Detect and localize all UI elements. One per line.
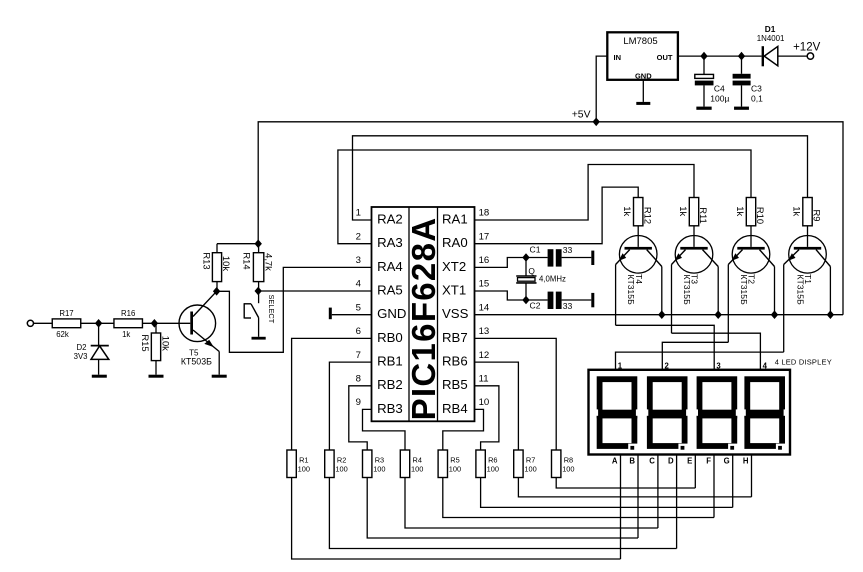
wire R16 to T5 base xyxy=(143,322,191,324)
ground C2 stub xyxy=(591,293,594,307)
svg-text:6: 6 xyxy=(356,326,361,337)
node D2 junction xyxy=(95,319,102,328)
terminal input xyxy=(27,320,33,326)
svg-text:R10: R10 xyxy=(755,207,766,224)
svg-text:RB5: RB5 xyxy=(442,377,468,392)
zener diode D2 3V3 xyxy=(74,323,109,374)
ground T5 xyxy=(212,375,227,378)
crystal Q 4,0MHz xyxy=(516,258,566,301)
svg-text:R16: R16 xyxy=(121,309,135,318)
svg-text:33: 33 xyxy=(563,245,573,255)
capacitor C2 33 xyxy=(526,292,591,311)
svg-text:LM7805: LM7805 xyxy=(623,36,657,47)
wire R7 to display segment H xyxy=(518,478,751,497)
svg-text:R8: R8 xyxy=(564,456,573,465)
transistor T3 KT315B xyxy=(672,226,719,333)
transistor T4 KT315B xyxy=(616,226,662,325)
ground C3 xyxy=(734,107,749,110)
svg-text:R14: R14 xyxy=(242,252,253,269)
wire R8 to display segment E xyxy=(556,478,695,489)
node C4 junction xyxy=(700,52,707,61)
wire R17 to R16 xyxy=(81,322,114,324)
svg-text:1k: 1k xyxy=(791,206,802,216)
resistor R10 1k xyxy=(735,198,766,226)
wire T2 emitter to display pin2 xyxy=(662,342,728,370)
svg-text:10k: 10k xyxy=(221,256,232,271)
svg-text:9: 9 xyxy=(356,397,361,408)
svg-text:10k: 10k xyxy=(160,336,171,351)
svg-text:RB2: RB2 xyxy=(377,377,403,392)
svg-text:4: 4 xyxy=(763,361,768,370)
svg-text:RA2: RA2 xyxy=(377,211,403,226)
svg-text:16: 16 xyxy=(479,255,490,266)
wire RA1 pin18 to R11 xyxy=(475,165,695,221)
svg-text:R9: R9 xyxy=(812,210,823,222)
wire IN to +5V rail xyxy=(596,56,607,122)
wire T1 emitter to display pin1 xyxy=(616,352,784,370)
svg-text:G: G xyxy=(724,457,730,466)
svg-text:100: 100 xyxy=(335,465,347,474)
node R14 bottom junction xyxy=(255,287,262,296)
svg-text:5: 5 xyxy=(356,302,361,313)
svg-text:33: 33 xyxy=(563,301,573,311)
voltage regulator U2 LM7805 xyxy=(607,32,678,80)
node T3 collector junction xyxy=(715,310,722,319)
svg-text:100: 100 xyxy=(487,465,499,474)
wire RB6 pin12 to R7 xyxy=(475,362,519,450)
svg-text:RA3: RA3 xyxy=(377,235,403,250)
svg-text:1k: 1k xyxy=(678,206,689,216)
node R13 R14 +5V junction xyxy=(255,239,262,248)
ground R15 xyxy=(149,375,164,378)
svg-text:RB0: RB0 xyxy=(377,330,403,345)
svg-text:КТ503Б: КТ503Б xyxy=(181,357,212,367)
svg-text:F: F xyxy=(706,457,711,466)
capacitor C1 33 xyxy=(526,244,591,266)
svg-text:B: B xyxy=(629,457,635,466)
svg-text:13: 13 xyxy=(479,326,490,337)
wire R2 to display segment D xyxy=(329,478,676,549)
node T1 collector junction xyxy=(827,310,834,319)
wire RA2 pin1 to R9 xyxy=(353,136,808,220)
svg-text:8: 8 xyxy=(356,374,361,385)
resistor R17 62k xyxy=(52,309,81,339)
svg-text:100: 100 xyxy=(562,465,574,474)
svg-text:3: 3 xyxy=(356,255,361,266)
svg-text:RA0: RA0 xyxy=(442,235,468,250)
svg-text:R7: R7 xyxy=(526,456,535,465)
capacitor C4 100u xyxy=(695,56,730,107)
svg-text:10: 10 xyxy=(479,397,490,408)
svg-text:3: 3 xyxy=(716,361,721,370)
diode D1 1N4001 xyxy=(757,24,807,66)
wire RA5 pin4 xyxy=(258,290,371,292)
svg-text:18: 18 xyxy=(479,208,490,219)
resistor R13 10k xyxy=(201,244,232,292)
svg-text:17: 17 xyxy=(479,231,490,242)
wire XT1 pin15 xyxy=(475,291,527,300)
wire R3 to display segment B xyxy=(367,478,638,539)
svg-text:11: 11 xyxy=(479,374,489,385)
resistor R11 1k xyxy=(678,198,709,226)
capacitor C3 0,1 xyxy=(733,56,763,107)
wire T5 collector to RA4 xyxy=(217,267,372,352)
svg-text:4,7k: 4,7k xyxy=(264,253,275,271)
svg-text:E: E xyxy=(687,457,692,466)
wire XT2 pin16 xyxy=(475,258,527,268)
svg-text:4 LED DISPLEY: 4 LED DISPLEY xyxy=(775,357,832,366)
LED display 4 digit xyxy=(589,357,832,559)
svg-text:RB1: RB1 xyxy=(377,354,403,369)
svg-text:62k: 62k xyxy=(56,330,69,339)
svg-text:1: 1 xyxy=(618,361,623,370)
wire RB0 pin6 to R1 xyxy=(292,338,372,450)
svg-text:OUT: OUT xyxy=(657,53,673,62)
svg-text:RB4: RB4 xyxy=(442,401,468,416)
transistor T1 KT315B xyxy=(784,226,831,352)
wire RB3 pin9 to R4 xyxy=(363,409,406,450)
resistor R8 100 xyxy=(552,450,575,478)
svg-text:1k: 1k xyxy=(122,330,130,339)
terminal +12V xyxy=(793,41,821,59)
svg-text:H: H xyxy=(743,457,749,466)
node T5 collector junction xyxy=(213,287,220,296)
svg-text:C1: C1 xyxy=(530,244,541,254)
svg-text:2: 2 xyxy=(665,361,670,370)
svg-text:100: 100 xyxy=(524,465,536,474)
resistor R4 100 xyxy=(400,450,423,478)
op-amp U1 PIC16F628A microcontroller xyxy=(356,207,490,421)
transistor T5 KT503B xyxy=(179,291,219,374)
svg-text:R5: R5 xyxy=(450,456,459,465)
svg-text:C3: C3 xyxy=(751,84,762,94)
svg-text:PIC16F628A: PIC16F628A xyxy=(405,217,442,421)
svg-text:R6: R6 xyxy=(488,456,497,465)
svg-text:R3: R3 xyxy=(375,456,384,465)
svg-text:15: 15 xyxy=(479,279,490,290)
svg-text:IN: IN xyxy=(614,53,622,62)
svg-text:12: 12 xyxy=(479,350,490,361)
svg-text:D: D xyxy=(668,457,674,466)
svg-text:+12V: +12V xyxy=(793,41,821,53)
switch SELECT xyxy=(244,291,276,337)
svg-text:1k: 1k xyxy=(735,206,746,216)
ground SELECT xyxy=(252,337,266,340)
svg-text:RA5: RA5 xyxy=(377,282,403,297)
svg-text:XT1: XT1 xyxy=(442,282,466,297)
net +5V rail xyxy=(258,109,843,314)
wire RB7 pin13 to R8 xyxy=(475,338,557,450)
svg-text:КТ315Б: КТ315Б xyxy=(739,274,749,305)
svg-text:RB7: RB7 xyxy=(442,330,468,345)
svg-text:C2: C2 xyxy=(530,300,541,310)
svg-text:GND: GND xyxy=(635,71,652,80)
wire R13 top to +5V xyxy=(217,243,258,245)
svg-text:100: 100 xyxy=(411,465,423,474)
svg-text:R4: R4 xyxy=(413,456,422,465)
svg-text:R2: R2 xyxy=(337,456,346,465)
svg-text:RA4: RA4 xyxy=(377,259,403,274)
wire RB5 pin11 to R6 xyxy=(475,386,499,450)
resistor R14 4,7k xyxy=(242,244,275,291)
resistor R7 100 xyxy=(514,450,537,478)
svg-text:100: 100 xyxy=(449,465,461,474)
svg-text:R11: R11 xyxy=(698,207,709,224)
wire T4 emitter to display pin3 xyxy=(616,325,715,370)
svg-text:D2: D2 xyxy=(77,343,87,352)
node T2 collector junction xyxy=(771,310,778,319)
node C2 junction xyxy=(522,296,529,305)
node +5V rail junction xyxy=(593,118,600,127)
svg-text:RB3: RB3 xyxy=(377,401,403,416)
wire VSS rail xyxy=(475,314,844,316)
resistor R6 100 xyxy=(476,450,499,478)
ground LM7805 xyxy=(636,80,650,105)
node C3 junction xyxy=(738,52,745,61)
svg-text:RA1: RA1 xyxy=(442,211,468,226)
wire RB2 pin8 to R3 xyxy=(349,386,372,450)
svg-text:100: 100 xyxy=(373,465,385,474)
svg-text:+5V: +5V xyxy=(572,109,591,120)
svg-text:14: 14 xyxy=(479,302,490,313)
resistor R5 100 xyxy=(438,450,461,478)
svg-text:A: A xyxy=(612,457,618,466)
svg-text:4: 4 xyxy=(356,279,362,290)
wire R5 to display segment F xyxy=(443,478,714,518)
svg-text:Q: Q xyxy=(528,266,535,276)
wire OUT line xyxy=(678,55,762,57)
wire RB4 pin10 to R5 xyxy=(443,409,484,450)
wire RB1 pin7 to R2 xyxy=(329,362,371,450)
svg-text:1k: 1k xyxy=(622,206,633,216)
svg-text:100: 100 xyxy=(298,465,310,474)
ground C4 xyxy=(696,107,711,110)
wire T3 emitter to display pin4 xyxy=(672,333,761,370)
resistor R9 1k xyxy=(791,198,822,226)
svg-text:R1: R1 xyxy=(299,456,308,465)
node T4 collector junction xyxy=(658,310,665,319)
svg-text:C: C xyxy=(649,457,655,466)
resistor R2 100 xyxy=(325,450,348,478)
svg-text:КТ315Б: КТ315Б xyxy=(682,274,692,305)
svg-text:3V3: 3V3 xyxy=(74,352,88,361)
svg-text:0,1: 0,1 xyxy=(751,94,763,104)
resistor R1 100 xyxy=(287,450,310,478)
wire RA3 pin2 to R10 xyxy=(338,150,751,244)
ground GND pin5 stub xyxy=(329,308,372,320)
ground C1 stub xyxy=(591,251,594,265)
svg-text:2: 2 xyxy=(356,231,361,242)
svg-text:XT2: XT2 xyxy=(442,259,466,274)
svg-text:1N4001: 1N4001 xyxy=(757,34,785,43)
resistor R16 1k xyxy=(114,309,143,339)
resistor R12 1k xyxy=(622,198,653,226)
svg-text:D1: D1 xyxy=(765,24,776,34)
svg-text:7: 7 xyxy=(356,350,361,361)
svg-text:1: 1 xyxy=(356,208,361,219)
wire R6 to display segment G xyxy=(481,478,733,508)
svg-text:C4: C4 xyxy=(714,84,725,94)
resistor R3 100 xyxy=(363,450,386,478)
wire R1 to display segment A xyxy=(292,478,621,560)
svg-text:R17: R17 xyxy=(59,309,73,318)
svg-text:R15: R15 xyxy=(140,334,151,351)
svg-text:R13: R13 xyxy=(201,252,212,269)
svg-text:GND: GND xyxy=(377,306,406,321)
svg-text:RB6: RB6 xyxy=(442,354,468,369)
wire input to R17 xyxy=(34,322,53,324)
svg-text:R12: R12 xyxy=(642,207,653,224)
transistor T2 KT315B xyxy=(728,226,774,342)
svg-text:VSS: VSS xyxy=(442,306,469,321)
svg-text:4,0MHz: 4,0MHz xyxy=(539,275,566,284)
svg-text:100µ: 100µ xyxy=(710,94,729,104)
svg-text:КТ315Б: КТ315Б xyxy=(796,274,806,305)
svg-text:КТ315Б: КТ315Б xyxy=(626,274,636,305)
ground D2 xyxy=(92,375,107,378)
node R15 junction xyxy=(151,319,158,328)
resistor R15 10k xyxy=(140,323,172,374)
node C1 junction xyxy=(522,253,529,262)
wire R4 to display segment C xyxy=(405,478,658,529)
svg-text:SELECT: SELECT xyxy=(267,295,276,324)
wire RA0 pin17 to R12 xyxy=(475,187,639,244)
